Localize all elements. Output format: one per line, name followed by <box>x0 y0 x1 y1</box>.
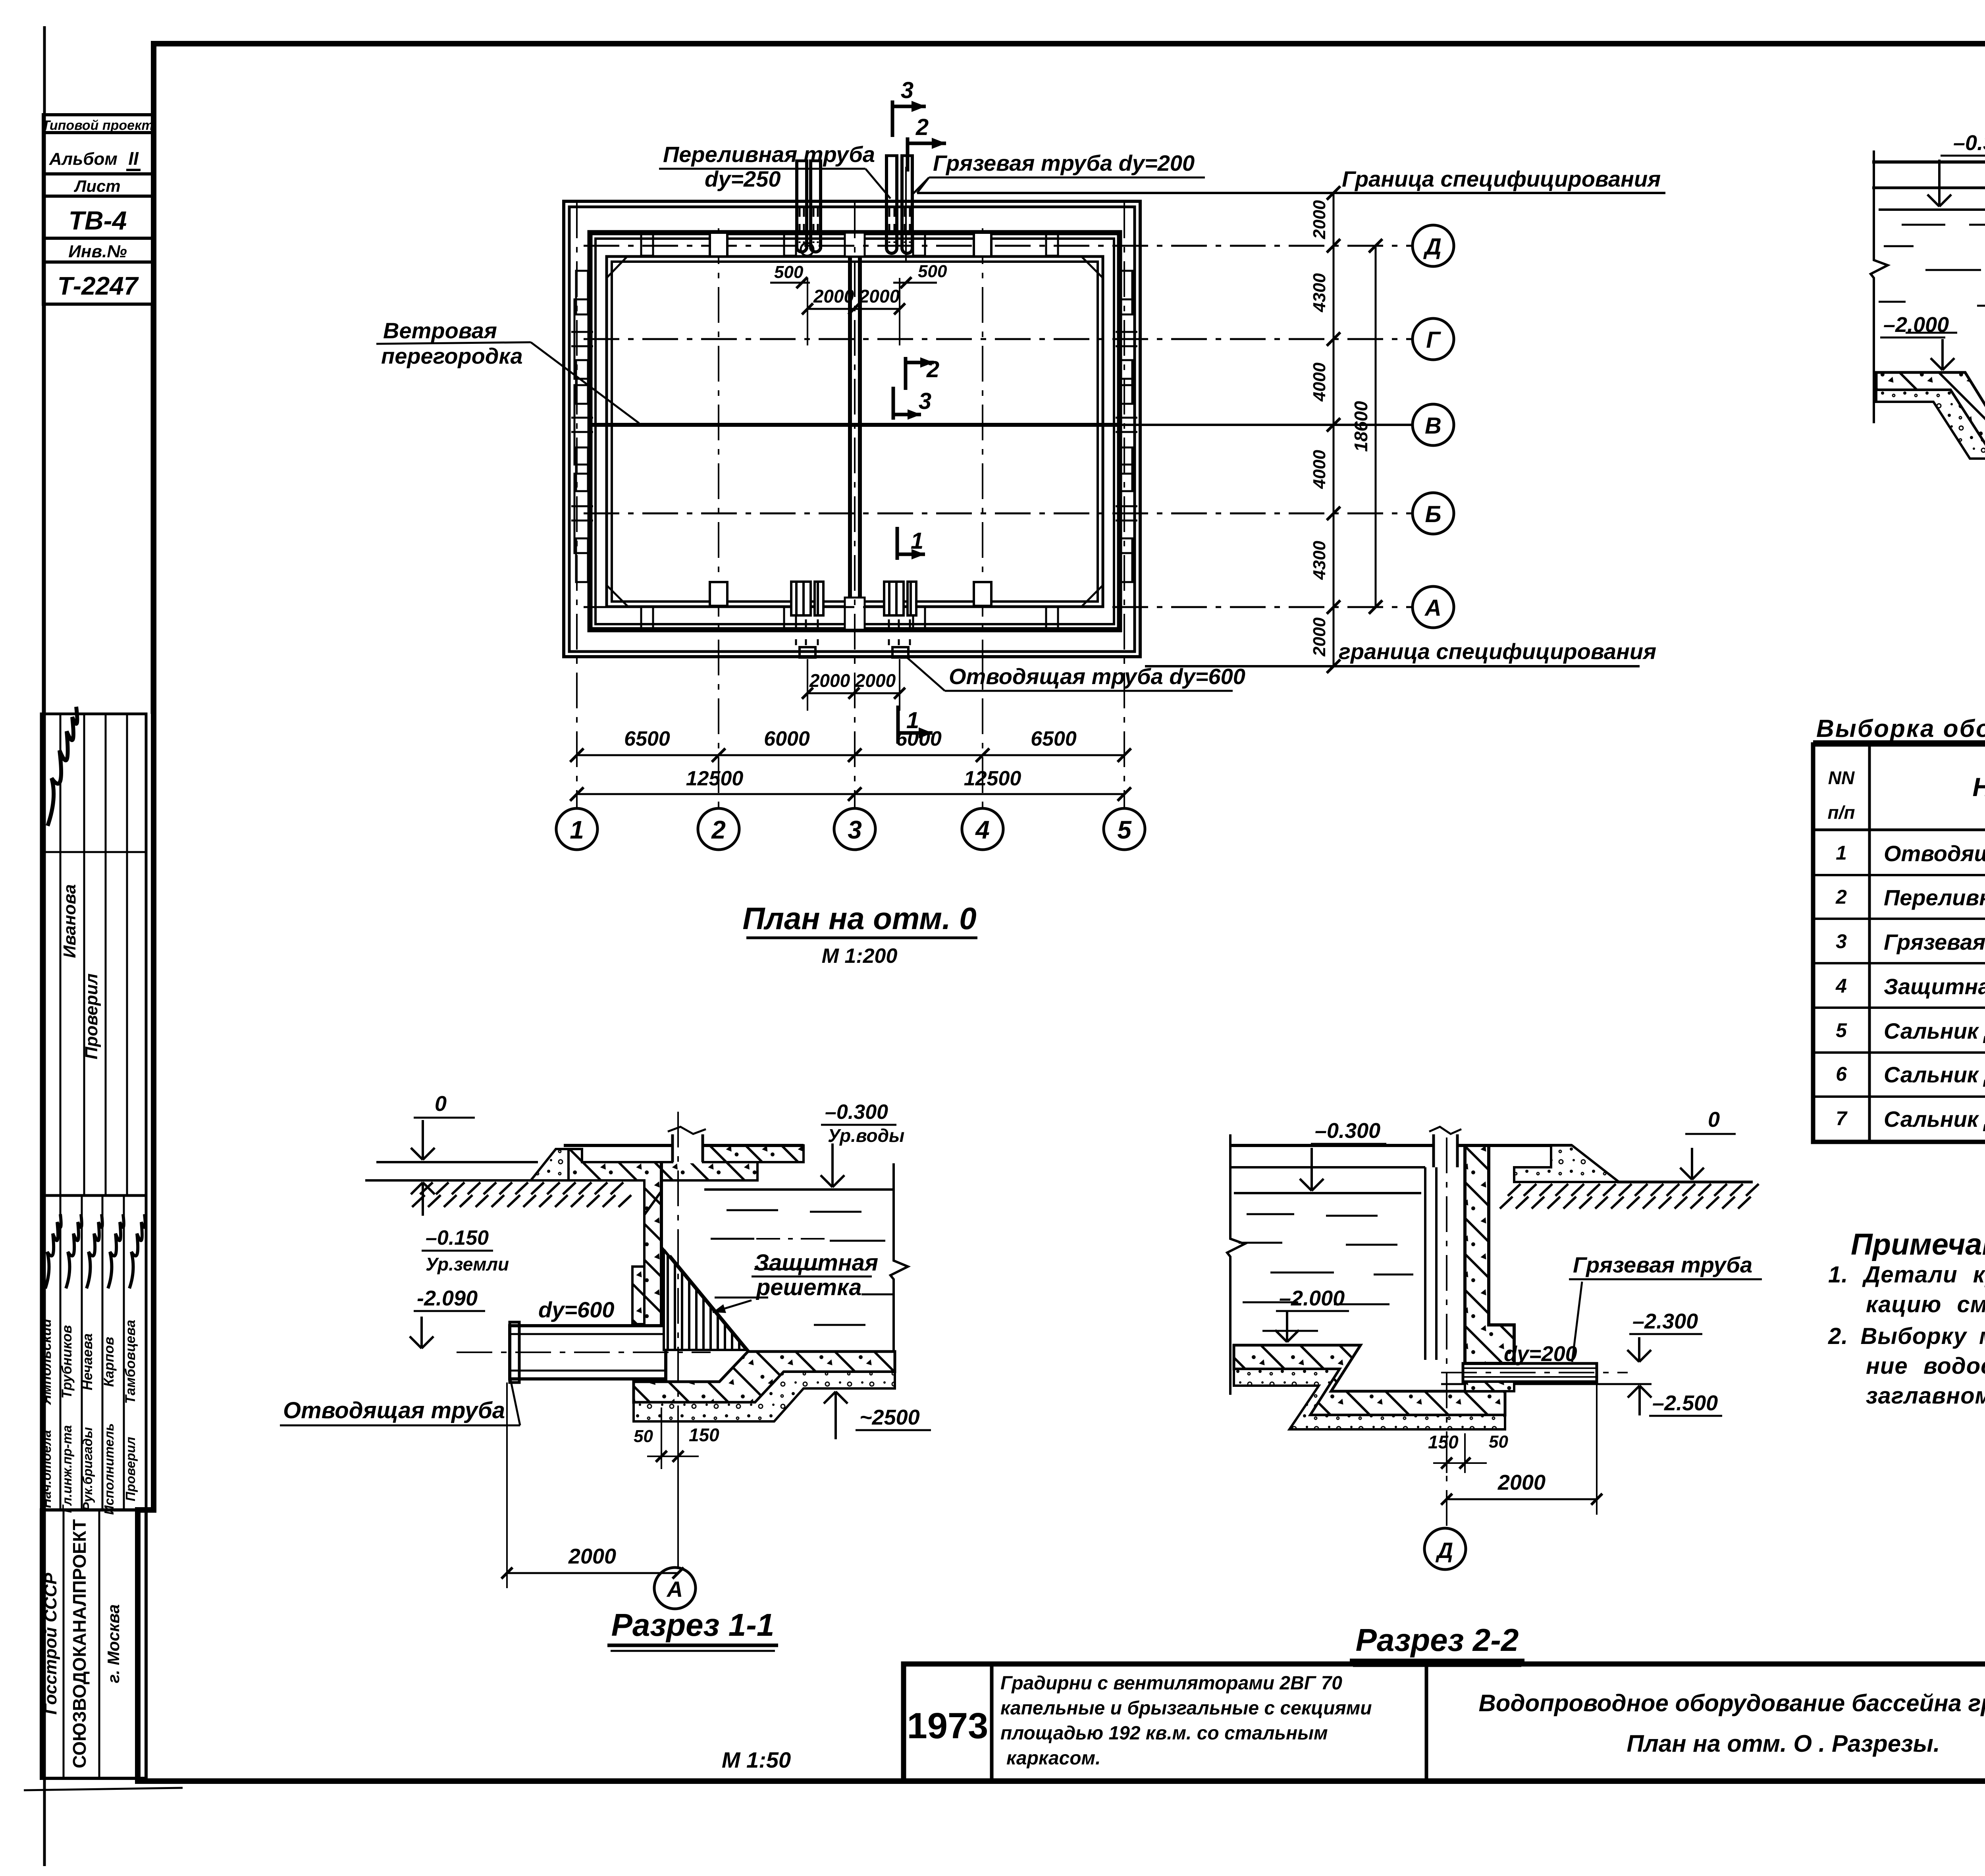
2-2 water dash <box>1326 1215 1378 1217</box>
1-1 right break line <box>890 1163 908 1362</box>
axis line 4 <box>982 228 983 809</box>
svg-text:–0.300: –0.300 <box>1315 1119 1380 1143</box>
1-1 water surface <box>704 1188 894 1191</box>
axis circle 1 <box>556 808 597 850</box>
plan inner corner seam TL <box>607 256 627 278</box>
title block border <box>904 1664 1985 1781</box>
axis circle V <box>1413 404 1454 445</box>
svg-text:Карпов: Карпов <box>101 1337 117 1387</box>
svg-text:0: 0 <box>1708 1108 1720 1132</box>
sig col line c <box>105 714 107 1195</box>
svg-text:~2500: ~2500 <box>860 1406 920 1429</box>
title block col 1 <box>990 1664 994 1781</box>
2-2 water dash <box>1346 1244 1397 1246</box>
table row line 3 <box>1813 962 1985 964</box>
1-1 elevation 0 arrow <box>422 1120 424 1160</box>
outlet pipe stub left (hatched) <box>791 582 823 615</box>
table row line 4 <box>1813 1006 1985 1009</box>
plan outer wall edge inner rect <box>569 207 1135 652</box>
svg-text:2000: 2000 <box>813 286 854 307</box>
outlet stub right below-wall dashes <box>888 619 890 645</box>
svg-text:Градирни с вентиляторами 2ВГ 7: Градирни с вентиляторами 2ВГ 70 <box>1000 1673 1342 1694</box>
svg-text:6000: 6000 <box>896 727 942 750</box>
2-2 water dash <box>1270 1272 1334 1274</box>
wall small pilaster <box>1120 447 1132 491</box>
svg-text:кацию см. лист ТВ-1 альбома: кацию см. лист ТВ-1 альбома I. <box>1866 1292 1985 1317</box>
bottom dim tick <box>570 748 584 762</box>
signature table upper box <box>41 714 146 1195</box>
1-1 outlet pipe inner bottom <box>510 1370 666 1372</box>
svg-text:0: 0 <box>435 1092 447 1116</box>
svg-text:1: 1 <box>570 816 584 844</box>
1-1 axis circle A <box>654 1568 696 1609</box>
elevation -0.300 arrow <box>1938 160 1941 206</box>
svg-text:Отводящая труба dу600 ℓ=1850: Отводящая труба dу600 ℓ=1850 <box>1884 841 1985 866</box>
wind partition leader <box>531 342 639 423</box>
svg-text:Трубников: Трубников <box>59 1325 75 1398</box>
table outer border <box>1813 744 1985 1142</box>
right dim tick <box>1327 239 1340 253</box>
sheet left edge line <box>43 26 46 1866</box>
svg-text:2: 2 <box>926 357 939 382</box>
1-1 outlet pipe body <box>510 1326 666 1379</box>
1-1 outlet pipe bell <box>510 1322 519 1382</box>
svg-text:18600: 18600 <box>1351 401 1371 452</box>
1-1 outlet label underline <box>280 1425 520 1427</box>
2-2 wall inner line <box>1464 1167 1467 1363</box>
2-2 elevation -2.000 arrow <box>1286 1311 1288 1342</box>
right dim strip line <box>1333 193 1335 666</box>
svg-text:Иванова: Иванова <box>60 884 79 958</box>
svg-text:Разрез 1-1: Разрез 1-1 <box>611 1607 775 1643</box>
svg-text:площадью 192 кв.м. со стальным: площадью 192 кв.м. со стальным <box>1000 1723 1328 1744</box>
2-2 mud pipe label underline <box>1569 1278 1762 1280</box>
svg-text:Грязевая труба: Грязевая труба <box>1573 1252 1752 1277</box>
1-1 elevation 0 underline <box>414 1117 475 1119</box>
svg-text:Переливная труба dу 250: Переливная труба dу 250 <box>1884 885 1985 910</box>
signature of Карпов <box>108 1214 124 1288</box>
elevation -2500 arrow 1-1 <box>834 1392 837 1439</box>
1-1 top slab hatch right part <box>703 1145 804 1162</box>
2-2 sleeve stub <box>1432 1134 1435 1167</box>
stamp box: List <box>43 174 154 196</box>
elevation -2.090 arrow <box>420 1317 423 1348</box>
axis circle Д <box>1413 225 1454 266</box>
1-1 ground hatch <box>412 1182 631 1207</box>
elevation -0.300 1-1 underline <box>821 1124 896 1126</box>
2-2 under-wall concrete <box>1465 1382 1514 1391</box>
2-2 water dash <box>1374 1274 1413 1276</box>
mud stub center line <box>905 167 907 262</box>
axis line V extension <box>1119 424 1413 426</box>
roles col line 3 <box>102 1195 104 1510</box>
svg-text:2. Выборку материалов на во: 2. Выборку материалов на водопроводное о… <box>1828 1323 1985 1349</box>
svg-text:граница специфицирования: граница специфицирования <box>1339 639 1656 664</box>
svg-text:4: 4 <box>975 816 990 844</box>
svg-text:NN: NN <box>1828 767 1855 788</box>
svg-text:капельные и брызгальные с секц: капельные и брызгальные с секциями <box>1000 1698 1372 1719</box>
roles col line 2 <box>81 1195 83 1510</box>
svg-text:4: 4 <box>1835 975 1847 997</box>
svg-text:А: А <box>666 1577 683 1602</box>
bottom wall small notch <box>784 607 796 629</box>
overflow label leader <box>865 169 890 199</box>
1-1 protective grate <box>664 1250 746 1350</box>
svg-text:3: 3 <box>919 388 931 414</box>
signature of Трубников <box>66 1214 82 1288</box>
signature squiggle top <box>48 707 77 826</box>
1-1 top slab top line <box>564 1144 673 1147</box>
svg-text:Ур.земли: Ур.земли <box>426 1254 509 1274</box>
svg-text:-2.090: -2.090 <box>417 1286 478 1310</box>
svg-text:–0.300: –0.300 <box>1953 131 1985 155</box>
stamp box: Titovoy proekt <box>43 115 154 133</box>
top pipes dim line <box>807 308 900 310</box>
svg-text:2000: 2000 <box>1310 617 1329 657</box>
svg-text:Защитная: Защитная <box>754 1250 878 1276</box>
spec boundary top left rise <box>917 177 929 193</box>
signature of Тамбовцева <box>129 1214 145 1288</box>
svg-text:Разрез 2-2: Разрез 2-2 <box>1356 1622 1519 1658</box>
svg-text:Отводящая труба dу=600: Отводящая труба dу=600 <box>949 664 1245 689</box>
2-2 water line under pipe <box>1441 1383 1652 1385</box>
wall small pilaster <box>576 447 588 491</box>
svg-text:Б: Б <box>1425 501 1441 527</box>
section flag 1 bottom <box>896 706 900 744</box>
1-1 pipe center line <box>457 1352 711 1353</box>
svg-text:Нач.отдела: Нач.отдела <box>39 1430 54 1508</box>
1-1 water dash <box>715 1297 768 1299</box>
svg-text:6000: 6000 <box>764 727 810 750</box>
elevation -0.150 underline <box>422 1250 493 1252</box>
svg-text:–2.000: –2.000 <box>1279 1286 1345 1310</box>
svg-text:Защитная решетка: Защитная решетка <box>1884 974 1985 999</box>
bottom dim tick <box>1118 748 1131 762</box>
axis line Б <box>584 513 1413 515</box>
svg-text:5: 5 <box>1836 1019 1847 1041</box>
stamp column spine <box>42 304 45 714</box>
plan basin wall inner face thick rect <box>590 233 1120 630</box>
axis line 3 <box>854 202 856 809</box>
section flag 3 inner <box>892 387 895 420</box>
outlet pipe stub right (hatched) <box>884 582 916 615</box>
wall small pilaster <box>1120 538 1132 582</box>
svg-text:1: 1 <box>1836 842 1847 864</box>
stamp box: T-2247 <box>43 262 154 304</box>
wall small pilaster <box>576 538 588 582</box>
1-1 ground line 1 <box>376 1161 538 1163</box>
svg-text:6500: 6500 <box>1031 727 1077 750</box>
svg-text:2: 2 <box>1835 886 1847 908</box>
top wall small notch <box>641 234 653 256</box>
2-2 axis line <box>1446 1138 1447 1529</box>
frame left border <box>152 44 156 1511</box>
sig row line <box>41 851 146 853</box>
svg-text:Примечания:: Примечания: <box>1851 1228 1985 1261</box>
svg-text:12500: 12500 <box>964 767 1021 790</box>
wall small pilaster <box>576 360 588 404</box>
table row line 1 <box>1813 874 1985 876</box>
2-2 elevation -2.300 underline <box>1629 1333 1702 1335</box>
stamp box: TV-4 <box>43 196 154 238</box>
plan title underline <box>746 937 977 939</box>
roles col line 1 <box>60 1195 62 1510</box>
top wall small notch <box>913 234 925 256</box>
1-1 walkway inner edge <box>757 1161 804 1163</box>
1-1 water dash <box>861 1294 893 1296</box>
2-2 water dash <box>1239 1242 1282 1244</box>
svg-text:Водопроводное оборудование б: Водопроводное оборудование бассейна град… <box>1478 1690 1985 1716</box>
svg-text:150: 150 <box>1428 1432 1459 1452</box>
svg-text:Переливная труба: Переливная труба <box>663 142 875 167</box>
outlet stub left below-wall dashes <box>795 619 797 645</box>
outlet stub right flange <box>892 647 908 657</box>
plan inner basin edge rect 2 <box>612 262 1098 602</box>
2-2 top slab bottom line <box>1230 1166 1425 1168</box>
axis circle 3 <box>834 808 875 850</box>
svg-text:2000: 2000 <box>568 1544 616 1568</box>
svg-text:п/п: п/п <box>1828 802 1855 823</box>
svg-text:Грязевая труба dу=200: Грязевая труба dу=200 <box>933 150 1195 175</box>
svg-text:Ветровая: Ветровая <box>383 318 497 343</box>
svg-text:ние водосборного бассейна г: ние водосборного бассейна градирни см. н… <box>1866 1353 1985 1379</box>
svg-text:каркасом.: каркасом. <box>1006 1748 1100 1769</box>
elevation -0.150 arrow <box>422 1182 424 1216</box>
svg-text:Проверил: Проверил <box>82 974 101 1059</box>
right dim 18600 line <box>1375 246 1377 607</box>
svg-text:М 1:200: М 1:200 <box>822 945 898 968</box>
section flag 2 top <box>906 137 910 172</box>
svg-text:заглавном листе ТВ-1.: заглавном листе ТВ-1. <box>1866 1383 1985 1409</box>
3-3 water surface <box>1879 208 1985 211</box>
1-1 basin floor bed dots <box>634 1372 895 1421</box>
1-1 water dash <box>810 1211 861 1213</box>
table row line 6 <box>1813 1095 1985 1098</box>
svg-text:1: 1 <box>911 528 923 554</box>
top wall small notch <box>1046 234 1058 256</box>
svg-text:–2.000: –2.000 <box>1883 313 1949 337</box>
table header row line <box>1813 829 1985 831</box>
svg-text:Госстрой СССР: Госстрой СССР <box>41 1573 60 1715</box>
2-2 top slab top line <box>1230 1144 1434 1147</box>
2-2 water dash <box>1262 1330 1318 1332</box>
axis line 5 <box>1124 202 1125 809</box>
3-3 pool floor slab <box>1876 372 1985 447</box>
elevation -2500 underline 1-1 <box>856 1429 931 1431</box>
dim 500 right line <box>893 282 937 284</box>
svg-text:5: 5 <box>1117 816 1132 844</box>
elevation -0.300 1-1 arrow <box>831 1143 834 1187</box>
svg-text:–2.300: –2.300 <box>1632 1309 1698 1333</box>
wall notch pilaster <box>710 233 727 256</box>
svg-text:В: В <box>1425 413 1442 439</box>
3-3 left break line <box>1871 150 1888 423</box>
2-2 mud pipe leader <box>1572 1282 1582 1362</box>
svg-text:3: 3 <box>848 816 862 844</box>
svg-text:г. Москва: г. Москва <box>104 1604 123 1683</box>
svg-text:4000: 4000 <box>1310 362 1329 402</box>
axis line 1 <box>576 202 578 809</box>
1-1 water centerdash <box>756 1238 828 1240</box>
svg-text:Т-2247: Т-2247 <box>58 272 139 300</box>
top wall small notch <box>784 234 796 256</box>
2-2 left break line <box>1227 1134 1245 1395</box>
central partition slot bottom <box>845 598 865 630</box>
svg-text:500: 500 <box>774 262 804 282</box>
svg-text:Граница специфицирования: Граница специфицирования <box>1342 166 1661 191</box>
wall pilaster <box>574 385 590 465</box>
3-3 water surface dashes <box>1902 224 1945 226</box>
spec boundary bottom line <box>1145 665 1640 667</box>
1-1 dim 2000 line <box>507 1572 678 1574</box>
svg-text:–0.150: –0.150 <box>426 1226 489 1249</box>
2-2 ground hatch <box>1500 1184 1759 1209</box>
signature of Нечаева <box>87 1214 102 1288</box>
svg-text:2000: 2000 <box>859 286 900 307</box>
title block col 2 <box>1425 1664 1428 1781</box>
elevation -2.000 underline <box>1880 337 1945 339</box>
3-3 floor bed dots <box>1876 390 1985 459</box>
central partition wall right line <box>858 233 862 630</box>
table title underline <box>1813 740 1985 743</box>
svg-text:Ямпольский: Ямпольский <box>39 1319 54 1406</box>
1-1 ground line 2 <box>365 1179 632 1182</box>
svg-text:А: А <box>1424 595 1442 621</box>
svg-text:Ур.воды: Ур.воды <box>828 1125 904 1146</box>
right dim tick <box>1327 332 1340 346</box>
plan inner corner seam BL <box>607 585 628 607</box>
svg-text:6: 6 <box>1836 1063 1847 1085</box>
svg-text:План на отм. О . Разрезы.: План на отм. О . Разрезы. <box>1627 1730 1940 1757</box>
axis line А <box>584 606 1413 608</box>
2-2 standpipe visible <box>1424 1167 1426 1360</box>
sig col line d <box>126 714 128 1195</box>
svg-text:2000: 2000 <box>1497 1471 1546 1494</box>
svg-text:2: 2 <box>711 816 726 844</box>
svg-text:перегородка: перегородка <box>381 343 523 368</box>
wall notch pilaster <box>974 582 991 606</box>
plan inner basin edge rect <box>607 256 1103 607</box>
central partition slot top <box>845 233 865 256</box>
label mud pipe underline <box>929 177 1205 179</box>
right dim tick <box>1327 507 1340 520</box>
table row line 2 <box>1813 918 1985 920</box>
org col line 1 <box>63 1510 65 1778</box>
svg-text:4300: 4300 <box>1310 273 1329 312</box>
wall pilaster <box>574 299 590 379</box>
2-2 elevation -0.300 underline <box>1311 1143 1386 1145</box>
1-1 outlet pipe inner top <box>510 1333 666 1335</box>
1-1 outlet leader <box>510 1378 520 1425</box>
wall small pilaster <box>1120 271 1132 314</box>
wall pilaster <box>1119 474 1134 553</box>
svg-text:dу=600: dу=600 <box>538 1297 615 1322</box>
elevation -2.090 underline <box>414 1310 485 1312</box>
1-1 axis line <box>677 1112 679 1564</box>
svg-text:СОЮЗВОДОКАНАЛПРОЕКТ: СОЮЗВОДОКАНАЛПРОЕКТ <box>69 1519 90 1768</box>
svg-text:4300: 4300 <box>1310 541 1329 580</box>
svg-text:ТВ-4: ТВ-4 <box>69 206 127 235</box>
1-1 sleeve stub <box>671 1134 674 1162</box>
sig col line b <box>83 714 85 1195</box>
svg-text:50: 50 <box>634 1427 653 1446</box>
plan inner corner seam BR <box>1081 585 1103 607</box>
axis line 2 <box>718 228 719 809</box>
right dim tick <box>1327 600 1340 614</box>
bottom wall small notch <box>1046 607 1058 629</box>
3-3 top slab bottom line left <box>1872 187 1985 189</box>
2-2 elevation 0 arrow <box>1691 1148 1693 1180</box>
svg-text:Рук.бригады: Рук.бригады <box>80 1427 95 1511</box>
svg-text:II: II <box>128 148 139 169</box>
elevation -2.000 arrow <box>1941 339 1944 370</box>
wall notch pilaster <box>974 233 991 256</box>
2-2 elevation -2.500 underline <box>1649 1415 1722 1417</box>
axis circle 5 <box>1104 808 1145 850</box>
section flag 2 inner <box>904 357 908 390</box>
wall pilaster <box>1119 385 1134 465</box>
1-1 grate leader arrow <box>713 1300 752 1312</box>
outlet stub left flange <box>800 647 815 657</box>
wall pilaster <box>574 474 590 553</box>
svg-text:3: 3 <box>1836 930 1847 952</box>
svg-text:3: 3 <box>901 77 913 103</box>
1-1 berm dotted <box>531 1149 569 1180</box>
2-2 pipe center line <box>1441 1372 1628 1373</box>
org col line 2 <box>98 1510 100 1778</box>
stamp box: Inv No <box>43 238 154 262</box>
svg-text:2000: 2000 <box>855 670 896 691</box>
label outlet pipe underline <box>945 690 1233 692</box>
signature of Ямпольский <box>45 1214 61 1288</box>
svg-text:Грязевая труба dу=200: Грязевая труба dу=200 <box>1884 929 1985 954</box>
svg-text:1. Детали крепления переливно: 1. Детали крепления переливной трубы и с… <box>1828 1262 1985 1288</box>
axis line Г <box>584 338 1413 340</box>
2-2 mud pipe inner lines <box>1463 1367 1597 1369</box>
stamp box: Albom II <box>43 133 154 174</box>
top pipes dim ext lines <box>807 278 808 345</box>
right dim tick <box>1327 418 1340 432</box>
svg-text:Исполнитель: Исполнитель <box>102 1423 116 1515</box>
2-2 water surface <box>1234 1192 1421 1194</box>
svg-text:2000: 2000 <box>809 670 850 691</box>
svg-text:12500: 12500 <box>686 767 744 790</box>
2-2 mud pipe body <box>1463 1363 1597 1382</box>
sheet bottom edge <box>24 1788 183 1790</box>
plan inner corner seam TR <box>1081 256 1103 278</box>
2-2 ground line right <box>1617 1181 1753 1184</box>
2-2 water dash <box>1334 1303 1389 1305</box>
1-1 grate hypotenuse double <box>664 1250 746 1350</box>
elevation -0.300 underline <box>1941 155 1985 157</box>
2-2 basin floor slab <box>1234 1345 1505 1415</box>
bottom dim tick <box>848 748 861 762</box>
svg-text:–2.500: –2.500 <box>1652 1391 1718 1415</box>
svg-text:План на отм. 0: План на отм. 0 <box>742 901 976 936</box>
2-2 basin floor bed dots <box>1234 1369 1505 1429</box>
roles table box <box>41 1195 146 1510</box>
1-1 basin floor slab <box>634 1352 895 1402</box>
bottom wall small notch <box>913 607 925 629</box>
svg-text:Г: Г <box>1426 327 1441 353</box>
table col line 1 <box>1868 744 1871 1142</box>
label overflow pipe underline <box>659 168 865 170</box>
1-1 dim 50 150 ticks <box>661 1407 662 1469</box>
mud label leader <box>912 177 929 195</box>
bottom dim line 1 (spans) <box>577 754 1124 756</box>
svg-text:dу=200: dу=200 <box>1504 1342 1577 1366</box>
svg-text:Проверил: Проверил <box>123 1437 138 1501</box>
